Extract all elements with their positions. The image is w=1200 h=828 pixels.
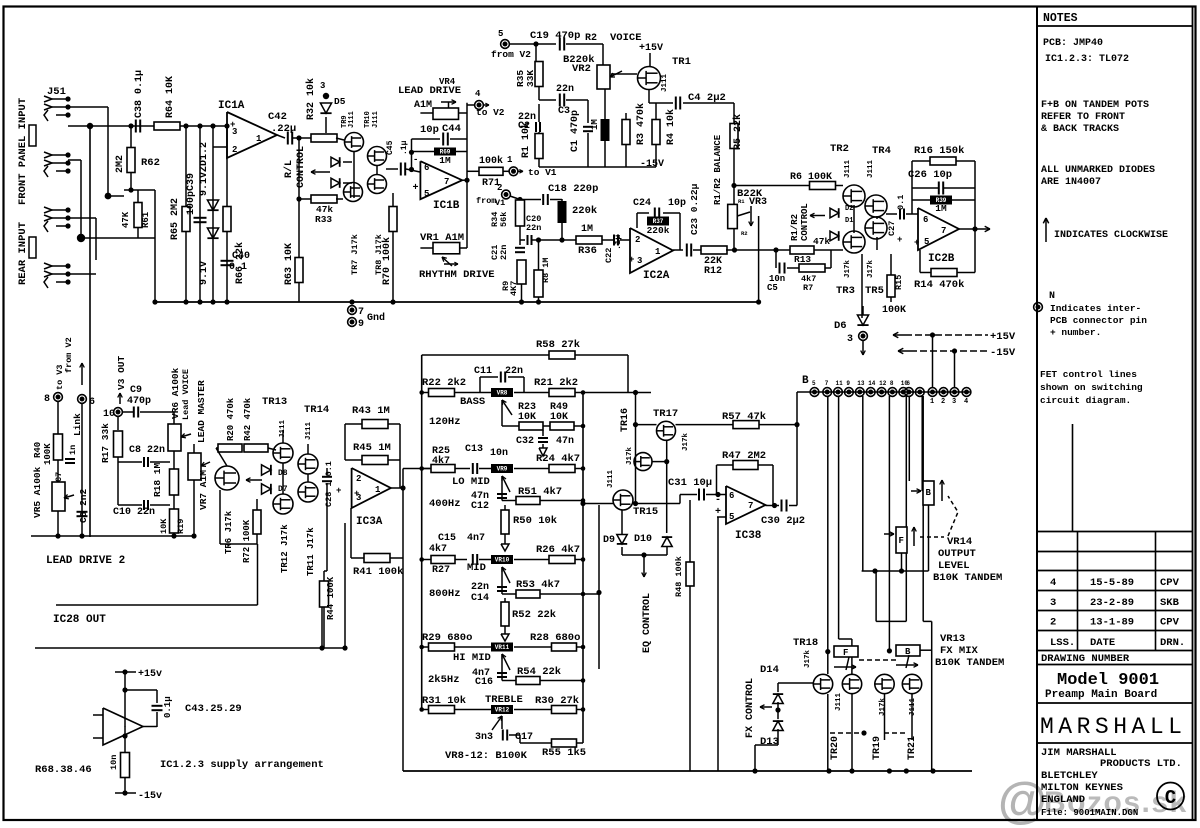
svg-text:IC1A: IC1A xyxy=(218,100,245,112)
svg-text:LEVEL: LEVEL xyxy=(938,560,970,572)
svg-text:TR20: TR20 xyxy=(830,736,841,760)
svg-text:22n: 22n xyxy=(556,84,574,95)
svg-text:R64 10K: R64 10K xyxy=(165,76,176,118)
svg-text:D14: D14 xyxy=(760,664,779,676)
svg-text:CPV: CPV xyxy=(1160,577,1180,589)
svg-text:VR14: VR14 xyxy=(947,536,972,548)
svg-text:12: 12 xyxy=(879,380,887,387)
svg-text:C38 0.1μ: C38 0.1μ xyxy=(134,70,145,118)
svg-text:-: - xyxy=(413,155,418,165)
svg-text:D1: D1 xyxy=(845,217,853,225)
svg-text:0.1: 0.1 xyxy=(896,195,906,210)
svg-text:C11: C11 xyxy=(474,366,492,377)
svg-text:TR13: TR13 xyxy=(262,396,287,408)
svg-text:from V2: from V2 xyxy=(64,337,74,373)
svg-text:R41 100k: R41 100k xyxy=(353,566,403,578)
svg-text:C4 2μ2: C4 2μ2 xyxy=(688,92,726,104)
svg-text:B: B xyxy=(905,647,911,657)
svg-text:VR2: VR2 xyxy=(572,63,591,75)
svg-text:+15v: +15v xyxy=(138,669,162,680)
svg-text:R68.38.46: R68.38.46 xyxy=(35,764,92,776)
svg-text:6: 6 xyxy=(89,397,95,408)
svg-text:5: 5 xyxy=(729,512,734,522)
svg-text:EQ CONTROL: EQ CONTROL xyxy=(642,593,653,653)
svg-text:TR5: TR5 xyxy=(865,285,884,297)
svg-text:TR1: TR1 xyxy=(672,56,691,68)
svg-text:circuit diagram.: circuit diagram. xyxy=(1040,395,1131,406)
svg-text:R52 22k: R52 22k xyxy=(512,609,556,621)
svg-text:C17: C17 xyxy=(515,732,533,743)
svg-text:R20 470k: R20 470k xyxy=(226,397,236,441)
svg-text:+: + xyxy=(336,486,341,496)
svg-text:SKB: SKB xyxy=(1160,597,1180,609)
svg-text:VR10: VR10 xyxy=(495,557,510,564)
svg-text:R2: R2 xyxy=(741,230,748,237)
svg-text:13: 13 xyxy=(857,380,865,387)
svg-text:6: 6 xyxy=(424,163,429,173)
svg-text:TR15: TR15 xyxy=(633,506,658,518)
svg-text:TR4: TR4 xyxy=(872,145,891,157)
svg-text:9: 9 xyxy=(358,319,364,330)
svg-text:R45 1M: R45 1M xyxy=(353,442,391,454)
svg-text:R37: R37 xyxy=(653,218,664,225)
svg-text:+: + xyxy=(354,489,359,499)
svg-text:47n: 47n xyxy=(556,436,574,447)
svg-text:100K: 100K xyxy=(43,443,53,465)
svg-text:23-2-89: 23-2-89 xyxy=(1090,597,1134,609)
svg-text:7: 7 xyxy=(748,501,753,511)
svg-text:R36: R36 xyxy=(578,245,597,257)
svg-text:TR7 J17k: TR7 J17k xyxy=(350,234,360,275)
svg-text:VR11: VR11 xyxy=(495,644,510,651)
svg-text:10p: 10p xyxy=(420,124,439,136)
svg-text:to V1: to V1 xyxy=(528,167,557,178)
svg-text:+: + xyxy=(914,238,919,248)
svg-text:IC3A: IC3A xyxy=(356,516,383,528)
svg-text:J17k: J17k xyxy=(867,259,875,278)
svg-text:J111: J111 xyxy=(867,159,875,178)
svg-text:to V2: to V2 xyxy=(476,107,505,118)
svg-text:-15v: -15v xyxy=(138,791,162,802)
svg-text:LEAD MASTER: LEAD MASTER xyxy=(196,380,207,443)
svg-text:R62: R62 xyxy=(141,157,160,169)
svg-text:C43.25.29: C43.25.29 xyxy=(185,703,242,715)
svg-text:Indicates inter-: Indicates inter- xyxy=(1050,303,1141,314)
svg-text:TR3: TR3 xyxy=(836,285,855,297)
svg-text:1M: 1M xyxy=(935,203,947,214)
svg-text:1: 1 xyxy=(256,134,262,144)
svg-text:PCB: JMP40: PCB: JMP40 xyxy=(1043,38,1103,49)
svg-text:OUTPUT: OUTPUT xyxy=(938,548,976,560)
svg-text:VR8: VR8 xyxy=(497,390,508,397)
svg-text:TR9: TR9 xyxy=(341,115,349,128)
svg-text:F: F xyxy=(899,536,904,546)
svg-text:D13: D13 xyxy=(760,736,779,748)
svg-text:4: 4 xyxy=(964,398,968,406)
svg-text:R21 2k2: R21 2k2 xyxy=(534,377,578,389)
svg-text:TR11 J17k: TR11 J17k xyxy=(306,527,316,576)
svg-text:22n: 22n xyxy=(505,366,523,377)
svg-text:R48 100k: R48 100k xyxy=(674,556,684,597)
svg-text:R43 1M: R43 1M xyxy=(352,405,390,417)
svg-text:3n3: 3n3 xyxy=(475,732,493,743)
svg-text:IC38: IC38 xyxy=(735,530,762,542)
svg-text:MILTON KEYNES: MILTON KEYNES xyxy=(1041,782,1123,794)
svg-text:5: 5 xyxy=(812,380,816,387)
svg-text:C3: C3 xyxy=(558,106,570,117)
svg-text:IC1.2.3 supply arrangement: IC1.2.3 supply arrangement xyxy=(160,759,324,771)
svg-text:FX CONTROL: FX CONTROL xyxy=(745,678,756,738)
svg-text:R50 10k: R50 10k xyxy=(513,515,557,527)
svg-text:FX MIX: FX MIX xyxy=(940,645,979,657)
svg-text:+: + xyxy=(230,120,235,130)
svg-text:Lead VOICE: Lead VOICE xyxy=(181,369,191,420)
svg-text:800Hz: 800Hz xyxy=(429,588,461,600)
svg-text:J17k: J17k xyxy=(626,446,634,465)
svg-text:ALL UNMARKED DIODES: ALL UNMARKED DIODES xyxy=(1041,165,1155,176)
svg-text:J111: J111 xyxy=(372,111,380,128)
svg-text:+ number.: + number. xyxy=(1050,327,1101,338)
svg-text:R1/R2 BALANCE: R1/R2 BALANCE xyxy=(713,134,723,205)
svg-text:C15: C15 xyxy=(438,533,456,544)
svg-text:C23 0.22μ: C23 0.22μ xyxy=(689,183,700,235)
svg-text:IC2A: IC2A xyxy=(643,270,670,282)
svg-text:0.1: 0.1 xyxy=(229,262,247,273)
svg-text:+: + xyxy=(897,235,902,245)
svg-text:R/L: R/L xyxy=(283,160,295,178)
svg-text:Model 9001: Model 9001 xyxy=(1057,671,1159,690)
svg-text:R19: R19 xyxy=(176,519,186,534)
svg-text:4: 4 xyxy=(475,89,481,99)
svg-text:R16 150k: R16 150k xyxy=(914,145,964,157)
svg-text:2: 2 xyxy=(497,183,502,193)
svg-text:3: 3 xyxy=(1050,597,1056,609)
svg-text:R15: R15 xyxy=(894,275,904,290)
svg-text:-15V: -15V xyxy=(990,347,1016,359)
svg-text:5: 5 xyxy=(498,29,503,39)
svg-text:RHYTHM DRIVE: RHYTHM DRIVE xyxy=(419,269,495,281)
svg-text:100pC39: 100pC39 xyxy=(186,173,197,215)
svg-text:400Hz: 400Hz xyxy=(429,498,461,510)
svg-text:33K: 33K xyxy=(525,70,536,87)
svg-text:1: 1 xyxy=(655,247,661,257)
svg-text:13-1-89: 13-1-89 xyxy=(1090,617,1134,629)
svg-text:R7: R7 xyxy=(803,283,813,293)
svg-text:PCB connector pin: PCB connector pin xyxy=(1050,315,1147,326)
svg-text:D5: D5 xyxy=(334,96,346,107)
svg-text:4k7: 4k7 xyxy=(429,543,447,555)
svg-text:14: 14 xyxy=(868,380,876,387)
svg-text:CONTROL: CONTROL xyxy=(800,203,810,241)
svg-text:DRN.: DRN. xyxy=(1160,637,1185,649)
svg-text:C30 2μ2: C30 2μ2 xyxy=(761,515,805,527)
svg-text:TR17: TR17 xyxy=(653,408,678,420)
svg-text:R13: R13 xyxy=(794,254,811,265)
svg-text:10: 10 xyxy=(103,409,115,420)
svg-text:4K7: 4K7 xyxy=(509,281,519,296)
svg-text:J17k: J17k xyxy=(844,259,852,278)
svg-text:TR2: TR2 xyxy=(830,143,849,155)
svg-text:MARSHALL: MARSHALL xyxy=(1040,714,1186,740)
svg-text:R3 470k: R3 470k xyxy=(635,103,647,145)
svg-text:TR12 J17k: TR12 J17k xyxy=(280,524,290,573)
svg-text:10n: 10n xyxy=(490,448,508,459)
svg-text:IC1B: IC1B xyxy=(433,200,460,212)
svg-text:4: 4 xyxy=(1050,577,1056,589)
svg-text:J51: J51 xyxy=(47,86,66,98)
svg-text:C14: C14 xyxy=(471,593,489,604)
svg-text:CONTROL: CONTROL xyxy=(296,146,307,188)
svg-text:C8 22n: C8 22n xyxy=(129,445,165,456)
svg-text:C7: C7 xyxy=(54,472,64,482)
svg-text:ENGLAND: ENGLAND xyxy=(1041,794,1085,806)
svg-text:8: 8 xyxy=(44,394,50,405)
svg-text:C24: C24 xyxy=(633,198,651,209)
svg-text:& BACK TRACKS: & BACK TRACKS xyxy=(1041,124,1119,135)
svg-text:PRODUCTS LTD.: PRODUCTS LTD. xyxy=(1100,758,1182,770)
svg-text:R58 27k: R58 27k xyxy=(536,339,580,351)
svg-text:J17k: J17k xyxy=(879,697,887,716)
svg-text:10K: 10K xyxy=(159,518,169,534)
svg-text:R72 100K: R72 100K xyxy=(242,519,252,563)
svg-text:V1: V1 xyxy=(495,198,505,208)
svg-text:9.1V: 9.1V xyxy=(199,261,210,285)
svg-text:+: + xyxy=(413,183,419,194)
svg-text:J111: J111 xyxy=(305,421,313,440)
svg-text:R1: R1 xyxy=(738,198,745,205)
svg-text:47k: 47k xyxy=(813,236,830,247)
svg-text:Gnd: Gnd xyxy=(367,312,385,324)
svg-text:R55 1k5: R55 1k5 xyxy=(542,747,586,759)
svg-text:from: from xyxy=(476,196,496,206)
svg-text:0.1μ: 0.1μ xyxy=(163,696,173,718)
svg-text:LSS.: LSS. xyxy=(1050,637,1075,649)
svg-text:VR6 A100k: VR6 A100k xyxy=(170,367,181,419)
svg-text:10n: 10n xyxy=(109,755,119,770)
svg-text:R40: R40 xyxy=(33,442,43,458)
svg-text:TR19: TR19 xyxy=(872,736,883,760)
svg-text:D6: D6 xyxy=(834,320,847,332)
svg-text:B10K TANDEM: B10K TANDEM xyxy=(933,572,1002,584)
svg-text:+15V: +15V xyxy=(990,331,1016,343)
svg-text:C28 1 0.1: C28 1 0.1 xyxy=(324,461,334,507)
svg-text:B: B xyxy=(926,488,932,498)
svg-text:IC2B: IC2B xyxy=(928,253,955,265)
svg-text:3: 3 xyxy=(637,256,642,266)
svg-text:J111: J111 xyxy=(661,73,669,92)
svg-text:C19 470p: C19 470p xyxy=(530,30,580,42)
svg-text:Preamp Main Board: Preamp Main Board xyxy=(1045,689,1157,701)
svg-text:FET control lines: FET control lines xyxy=(1040,369,1137,380)
svg-text:REFER TO FRONT: REFER TO FRONT xyxy=(1041,112,1125,123)
svg-text:15-5-89: 15-5-89 xyxy=(1090,577,1134,589)
svg-text:C13: C13 xyxy=(465,444,483,455)
svg-text:VR8-12: B100K: VR8-12: B100K xyxy=(445,750,528,762)
svg-text:F: F xyxy=(843,648,848,658)
svg-text:CPV: CPV xyxy=(1160,617,1180,629)
svg-text:B: B xyxy=(802,375,809,387)
svg-text:C9: C9 xyxy=(130,385,142,396)
svg-text:100k: 100k xyxy=(479,155,503,167)
svg-text:6: 6 xyxy=(729,491,734,501)
svg-text:1n: 1n xyxy=(68,445,78,455)
svg-text:File: 9001MAIN.DGN: File: 9001MAIN.DGN xyxy=(1041,808,1138,818)
svg-text:C16: C16 xyxy=(475,677,493,688)
svg-text:J111: J111 xyxy=(844,159,852,178)
svg-text:J111: J111 xyxy=(835,692,843,711)
svg-text:R65 2M2: R65 2M2 xyxy=(170,198,181,240)
svg-text:VR13: VR13 xyxy=(940,633,965,645)
svg-text:C: C xyxy=(1165,787,1176,809)
svg-text:BASS: BASS xyxy=(460,396,485,408)
svg-text:V3 OUT: V3 OUT xyxy=(116,355,127,390)
svg-text:9.1VZD1.2: 9.1VZD1.2 xyxy=(199,142,210,196)
svg-text:R1/R2: R1/R2 xyxy=(790,214,800,241)
svg-text:from V2: from V2 xyxy=(491,49,531,60)
svg-text:J111: J111 xyxy=(607,469,615,488)
svg-text:56k: 56k xyxy=(499,212,509,227)
svg-text:5: 5 xyxy=(924,237,929,247)
svg-text:6: 6 xyxy=(906,380,910,387)
svg-text:C1 470p: C1 470p xyxy=(570,110,581,152)
svg-text:2: 2 xyxy=(1050,617,1056,629)
svg-text:C5: C5 xyxy=(767,283,778,293)
svg-text:1: 1 xyxy=(930,398,934,406)
svg-text:VR9: VR9 xyxy=(497,466,508,473)
svg-text:R26 4k7: R26 4k7 xyxy=(536,544,580,556)
svg-text:-: - xyxy=(715,495,721,506)
svg-text:2M2: 2M2 xyxy=(115,155,126,173)
svg-text:7: 7 xyxy=(941,226,946,236)
svg-text:C44: C44 xyxy=(442,123,461,135)
svg-text:7: 7 xyxy=(444,177,449,187)
svg-text:R61: R61 xyxy=(141,211,151,228)
svg-text:VR5 A100k: VR5 A100k xyxy=(32,466,43,518)
svg-text:FRONT PANEL INPUT: FRONT PANEL INPUT xyxy=(17,98,29,205)
svg-text:J17k: J17k xyxy=(804,649,812,668)
svg-text:VR7 A1M: VR7 A1M xyxy=(198,470,209,510)
svg-text:220k: 220k xyxy=(647,225,670,236)
svg-text:R42 470k: R42 470k xyxy=(243,397,253,441)
svg-text:8: 8 xyxy=(890,380,894,387)
svg-text:3: 3 xyxy=(320,81,325,91)
svg-text:REAR INPUT: REAR INPUT xyxy=(17,222,29,285)
svg-text:1M: 1M xyxy=(439,155,451,166)
svg-text:IC1.2.3: TL072: IC1.2.3: TL072 xyxy=(1045,54,1129,65)
svg-text:2: 2 xyxy=(232,145,237,155)
svg-text:11: 11 xyxy=(836,380,844,387)
svg-text:TR18: TR18 xyxy=(793,637,818,649)
svg-text:ARE 1N4007: ARE 1N4007 xyxy=(1041,177,1101,188)
svg-text:C27: C27 xyxy=(887,221,897,236)
svg-text:22n: 22n xyxy=(499,245,509,260)
svg-text:C32: C32 xyxy=(516,436,534,447)
svg-text:INDICATES CLOCKWISE: INDICATES CLOCKWISE xyxy=(1054,230,1168,241)
svg-text:R63 10K: R63 10K xyxy=(284,243,295,285)
svg-text:R70 100k: R70 100k xyxy=(381,237,393,285)
svg-text:N: N xyxy=(1049,291,1055,302)
svg-text:B10K TANDEM: B10K TANDEM xyxy=(935,657,1004,669)
svg-text:HI MID: HI MID xyxy=(453,652,491,664)
svg-text:R44 100K: R44 100K xyxy=(326,576,336,620)
svg-text:2k5Hz: 2k5Hz xyxy=(428,674,460,686)
svg-text:C42: C42 xyxy=(268,111,287,123)
svg-text:DATE: DATE xyxy=(1090,637,1115,649)
svg-text:A1M: A1M xyxy=(414,100,432,111)
svg-text:2: 2 xyxy=(356,474,361,484)
svg-text:R8 1M: R8 1M xyxy=(541,257,551,283)
svg-text:R1 10k: R1 10k xyxy=(520,122,532,158)
svg-text:R14 470k: R14 470k xyxy=(914,279,964,291)
svg-text:2: 2 xyxy=(635,235,640,245)
svg-text:C40: C40 xyxy=(232,251,250,262)
svg-text:BLETCHLEY: BLETCHLEY xyxy=(1041,770,1098,782)
svg-text:22n: 22n xyxy=(471,582,489,593)
svg-text:IC28 OUT: IC28 OUT xyxy=(53,614,106,626)
svg-text:R32 10k: R32 10k xyxy=(305,78,317,120)
svg-text:J17k: J17k xyxy=(682,432,690,451)
svg-text:D10: D10 xyxy=(634,534,652,545)
svg-text:TR16: TR16 xyxy=(620,408,631,432)
svg-text:TR10: TR10 xyxy=(364,111,372,128)
svg-text:R2: R2 xyxy=(585,33,597,44)
svg-text:22n: 22n xyxy=(526,223,541,233)
svg-text:DRAWING NUMBER: DRAWING NUMBER xyxy=(1041,653,1130,665)
svg-text:7: 7 xyxy=(825,380,829,387)
svg-text:9: 9 xyxy=(846,380,850,387)
svg-text:D9: D9 xyxy=(603,535,615,546)
svg-text:NOTES: NOTES xyxy=(1043,12,1078,25)
svg-text:.1μ: .1μ xyxy=(400,140,409,155)
svg-text:4n7: 4n7 xyxy=(467,533,485,544)
svg-text:VR4: VR4 xyxy=(439,77,456,87)
svg-text:R12: R12 xyxy=(704,266,722,277)
svg-text:120Hz: 120Hz xyxy=(429,416,461,428)
svg-text:1: 1 xyxy=(507,155,513,165)
svg-text:C26 10p: C26 10p xyxy=(908,169,952,181)
svg-text:C18 220p: C18 220p xyxy=(548,183,598,195)
svg-text:100K: 100K xyxy=(882,305,906,316)
svg-text:LO MID: LO MID xyxy=(452,476,490,488)
svg-text:J111: J111 xyxy=(909,697,917,716)
svg-text:5: 5 xyxy=(424,189,429,199)
svg-text:-15V: -15V xyxy=(640,159,664,170)
svg-text:+: + xyxy=(629,255,634,265)
svg-text:470p: 470p xyxy=(127,396,151,407)
svg-text:F+B ON TANDEM POTS: F+B ON TANDEM POTS xyxy=(1041,100,1149,111)
svg-text:TR6 J17k: TR6 J17k xyxy=(224,510,234,554)
svg-text:R17 33k: R17 33k xyxy=(100,423,111,463)
svg-text:D2: D2 xyxy=(845,205,853,213)
svg-text:R24 4k7: R24 4k7 xyxy=(536,453,580,465)
svg-text:TREBLE: TREBLE xyxy=(485,694,523,706)
svg-text:C12: C12 xyxy=(471,501,489,512)
svg-text:C6 2n2: C6 2n2 xyxy=(78,488,89,523)
svg-text:LEAD DRIVE 2: LEAD DRIVE 2 xyxy=(46,555,125,567)
svg-text:10p: 10p xyxy=(668,198,686,209)
svg-text:1M: 1M xyxy=(581,224,593,235)
svg-text:VR12: VR12 xyxy=(495,707,510,714)
svg-text:6: 6 xyxy=(923,215,928,225)
svg-text:+15V: +15V xyxy=(639,43,663,54)
svg-text:3: 3 xyxy=(952,398,956,406)
svg-text:3: 3 xyxy=(847,334,853,345)
svg-text:R18 1M: R18 1M xyxy=(152,462,163,497)
svg-text:1M: 1M xyxy=(590,119,600,130)
svg-text:TR14: TR14 xyxy=(304,404,329,416)
svg-text:R27: R27 xyxy=(432,565,450,576)
svg-text:R33: R33 xyxy=(315,214,332,225)
